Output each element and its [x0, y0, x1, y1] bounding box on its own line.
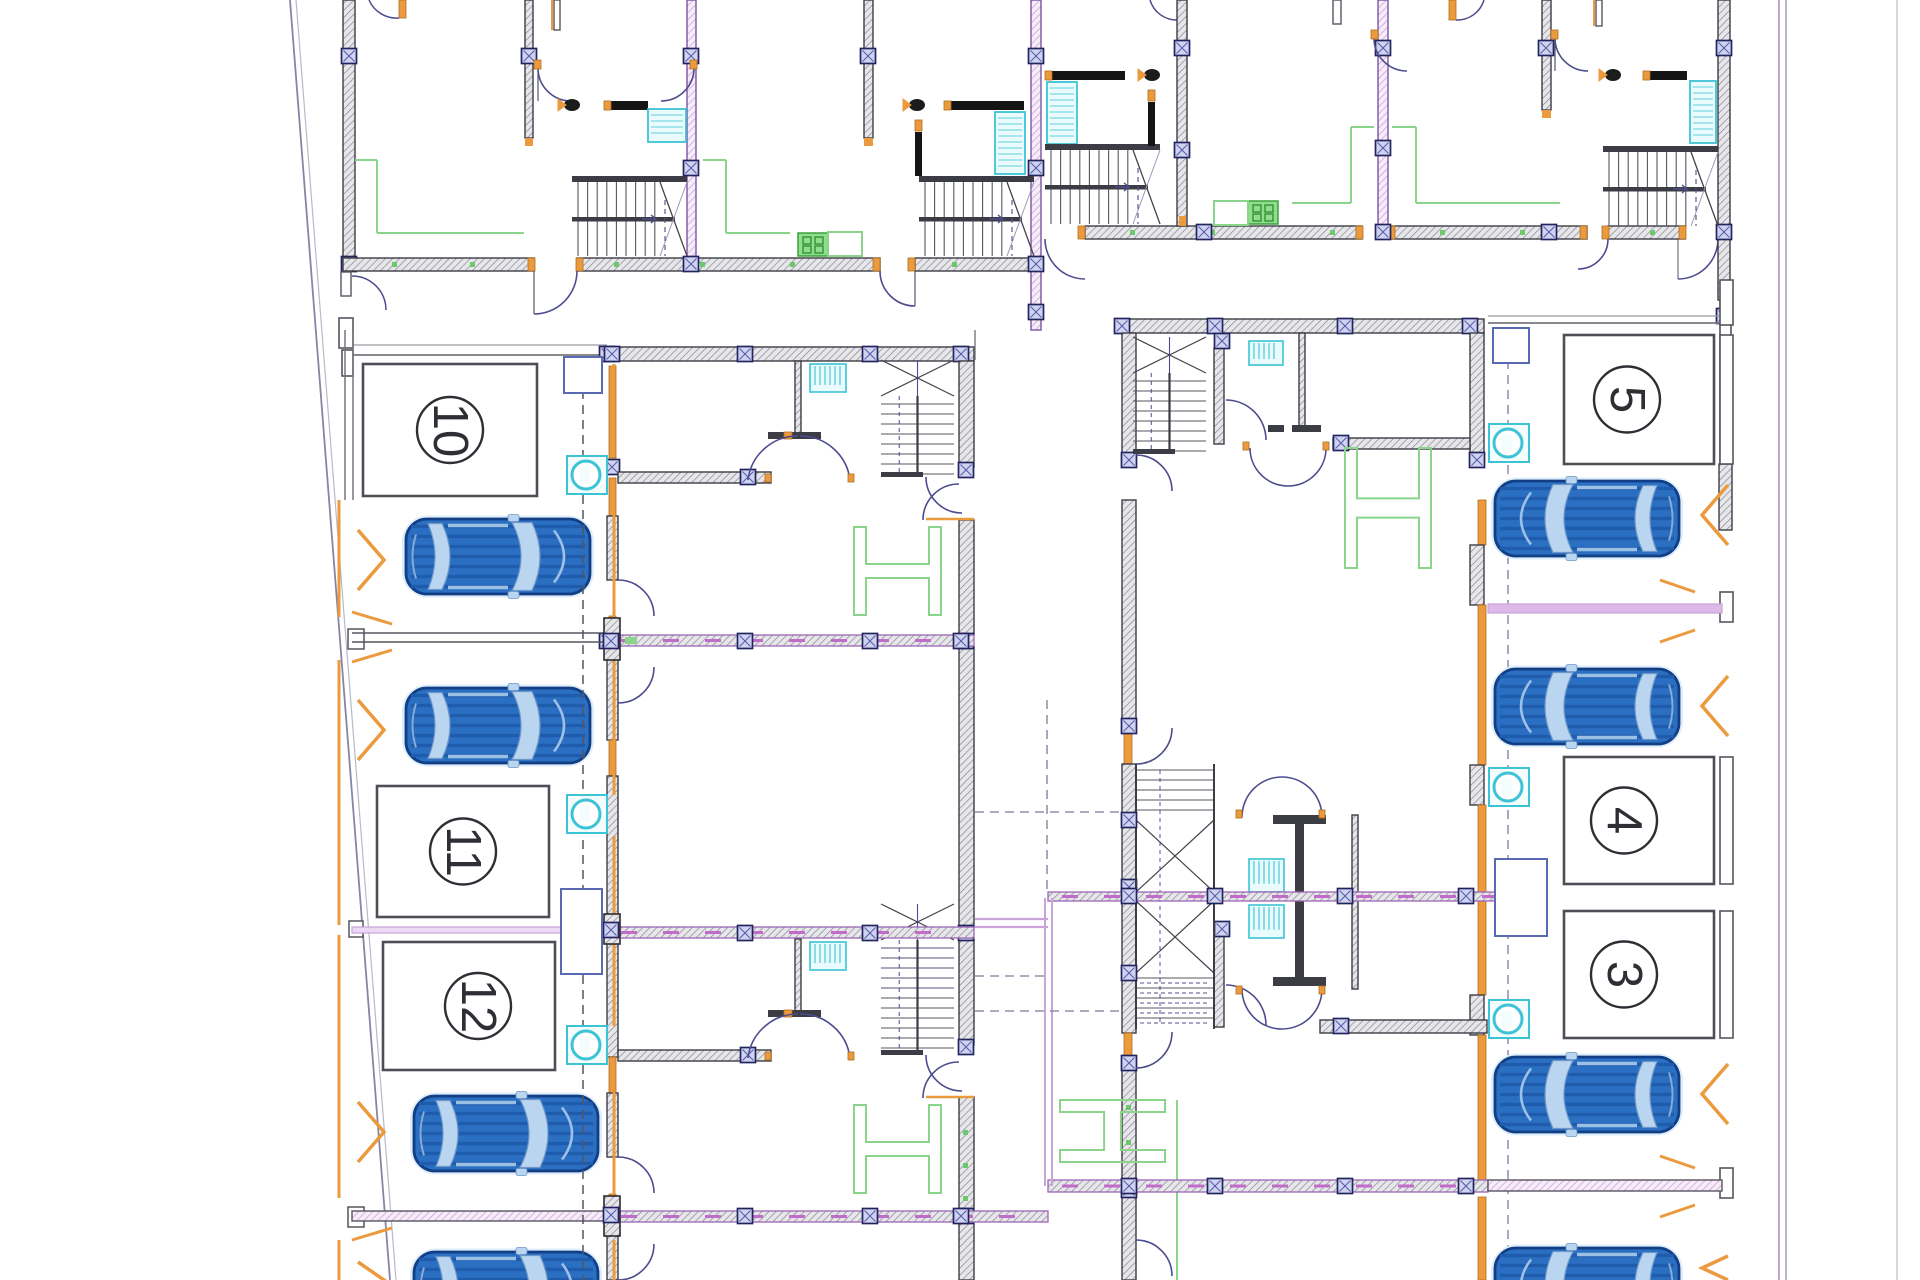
svg-text:5: 5: [1600, 386, 1654, 413]
svg-text:10: 10: [423, 403, 477, 458]
svg-text:11: 11: [436, 826, 490, 877]
svg-text:12: 12: [451, 979, 505, 1034]
svg-text:4: 4: [1597, 807, 1651, 834]
svg-text:3: 3: [1597, 961, 1651, 988]
